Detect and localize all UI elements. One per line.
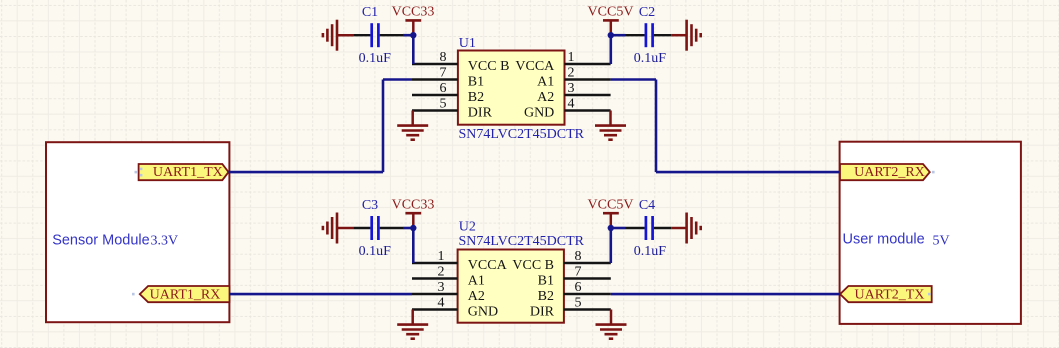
svg-text:C4: C4 xyxy=(639,198,655,213)
pin 3 A2 xyxy=(537,81,610,105)
power port VCC33 (top) xyxy=(392,5,435,36)
pin 1 VCCA xyxy=(515,50,610,74)
svg-text:C1: C1 xyxy=(362,5,378,20)
pin 6 B2 xyxy=(412,81,484,105)
pin 3 A2 xyxy=(412,280,485,304)
svg-text:B2: B2 xyxy=(468,90,484,105)
op-amp U1 (level shifter SN74LVC2T45DCTR) xyxy=(412,36,611,142)
svg-text:8: 8 xyxy=(440,50,447,65)
ground (bottom-left, rotated left) xyxy=(323,213,354,244)
wire VCC33 node down to U2 pin 1 xyxy=(412,228,415,263)
port UART2_RX xyxy=(840,164,930,180)
op-amp U2 (level shifter SN74LVC2T45DCTR) xyxy=(412,220,611,323)
port UART1_TX xyxy=(139,164,229,180)
power port VCC5V (top) xyxy=(588,5,634,36)
svg-text:7: 7 xyxy=(440,66,447,81)
svg-text:B1: B1 xyxy=(468,75,484,90)
wire UART1_TX to riser (net UART1_TX) xyxy=(229,171,384,174)
pin 2 A1 xyxy=(412,265,485,289)
port UART1_RX xyxy=(140,286,230,302)
ground (bottom-right, rotated right) xyxy=(671,213,700,244)
svg-text:3.3V: 3.3V xyxy=(151,233,179,248)
wire VCC5V node down to U2 pin 8 xyxy=(609,228,612,263)
svg-text:VCCA: VCCA xyxy=(515,59,555,74)
svg-text:DIR: DIR xyxy=(530,305,555,320)
wire VCC5V node to C4 xyxy=(611,227,626,230)
wire VCC33 node down to U1 pin 8 xyxy=(412,35,415,64)
wire to U1 pin 7 xyxy=(383,78,412,81)
wire VCC5V node to C2 xyxy=(611,34,626,37)
wire to port UART2_RX xyxy=(656,171,840,174)
ground (under U1 GND pin) xyxy=(595,111,626,140)
svg-text:U1: U1 xyxy=(459,36,476,51)
svg-text:VCCA: VCCA xyxy=(468,258,508,273)
wire U2 pin 6 to port UART2_TX (net UART2_TX) xyxy=(611,293,840,296)
svg-text:VCC B: VCC B xyxy=(468,59,510,74)
svg-text:User module: User module xyxy=(843,232,925,248)
svg-text:5: 5 xyxy=(575,296,582,311)
ground (under U2 GND pin) xyxy=(397,310,428,339)
wire VCC5V node down to U1 pin 1 xyxy=(609,35,612,64)
svg-text:2: 2 xyxy=(438,265,445,280)
capacitor C1 xyxy=(353,5,403,66)
pin 7 B1 xyxy=(412,66,484,90)
svg-text:VCC5V: VCC5V xyxy=(588,197,634,212)
svg-text:U2: U2 xyxy=(459,220,476,235)
svg-text:VCC33: VCC33 xyxy=(392,5,435,20)
svg-text:6: 6 xyxy=(440,81,447,96)
svg-text:3: 3 xyxy=(438,280,445,295)
capacitor C4 xyxy=(626,198,672,259)
junction node VCC5V/C2 xyxy=(608,32,614,38)
svg-text:A2: A2 xyxy=(537,90,554,105)
wire C1 to VCC33 node xyxy=(403,34,413,37)
junction node VCC33/C1 xyxy=(410,32,416,38)
svg-text:A1: A1 xyxy=(537,75,554,90)
pin 2 A1 xyxy=(537,66,610,90)
port UART2_TX xyxy=(840,286,932,302)
svg-text:6: 6 xyxy=(575,280,582,295)
svg-text:0.1uF: 0.1uF xyxy=(634,51,667,66)
svg-text:1: 1 xyxy=(568,50,575,65)
sheet symbol: User module box xyxy=(840,142,1021,324)
svg-text:B2: B2 xyxy=(538,289,554,304)
svg-text:UART2_TX: UART2_TX xyxy=(855,287,925,302)
svg-text:1: 1 xyxy=(438,249,445,264)
svg-text:UART2_RX: UART2_RX xyxy=(854,165,925,180)
svg-text:5V: 5V xyxy=(933,233,950,248)
ground (top-left, rotated left) xyxy=(323,20,354,51)
svg-text:0.1uF: 0.1uF xyxy=(359,244,392,259)
svg-text:A1: A1 xyxy=(468,274,485,289)
svg-text:GND: GND xyxy=(468,305,498,320)
sheet symbol: Sensor Module box xyxy=(46,142,229,322)
svg-text:Sensor Module: Sensor Module xyxy=(52,232,150,248)
junction node VCC5V/C4 xyxy=(608,225,614,231)
svg-text:C2: C2 xyxy=(639,5,655,20)
svg-text:4: 4 xyxy=(568,97,575,112)
svg-text:7: 7 xyxy=(575,265,582,280)
svg-text:VCC5V: VCC5V xyxy=(588,5,634,20)
pin 1 VCCA xyxy=(412,249,508,273)
node marker UART1_RX xyxy=(132,293,135,296)
wire riser down to port row xyxy=(655,80,658,173)
pin 8 VCC B xyxy=(512,249,610,273)
svg-text:VCC33: VCC33 xyxy=(392,197,435,212)
wire C3 to VCC33 node xyxy=(403,227,413,230)
wire riser up to U1 pin 7 row xyxy=(382,80,385,173)
svg-text:SN74LVC2T45DCTR: SN74LVC2T45DCTR xyxy=(459,127,585,142)
ground (top-right, rotated right) xyxy=(671,20,700,51)
svg-text:5: 5 xyxy=(440,97,447,112)
pin 5 DIR xyxy=(412,97,493,121)
pin 7 B1 xyxy=(538,265,611,289)
ground (under U1 DIR pin) xyxy=(397,111,428,140)
power port VCC33 (bottom) xyxy=(392,197,435,228)
node marker UART1_TX xyxy=(135,168,143,177)
pin 4 GND xyxy=(412,296,498,320)
svg-text:UART1_RX: UART1_RX xyxy=(150,287,221,302)
svg-text:3: 3 xyxy=(568,81,575,96)
wire U1 pin 2 to riser (net UART2_RX) xyxy=(611,78,656,81)
pin 4 GND xyxy=(524,97,611,121)
ground (under U2 DIR pin) xyxy=(596,310,627,339)
svg-text:4: 4 xyxy=(438,296,445,311)
svg-text:UART1_TX: UART1_TX xyxy=(153,165,223,180)
svg-text:B1: B1 xyxy=(538,274,554,289)
wire UART1_RX to U2 pin 3 (net UART1_RX) xyxy=(230,293,413,296)
node marker UART2_TX xyxy=(928,293,931,296)
svg-text:2: 2 xyxy=(568,66,575,81)
capacitor C3 xyxy=(353,198,403,259)
svg-text:DIR: DIR xyxy=(468,106,493,121)
pin 8 VCC B xyxy=(412,50,509,74)
junction node VCC33/C3 xyxy=(410,225,416,231)
svg-text:0.1uF: 0.1uF xyxy=(359,51,392,66)
svg-text:0.1uF: 0.1uF xyxy=(634,244,667,259)
svg-text:C3: C3 xyxy=(362,198,378,213)
capacitor C2 xyxy=(626,5,672,66)
pin 6 B2 xyxy=(538,280,611,304)
svg-text:VCC B: VCC B xyxy=(512,258,554,273)
svg-text:8: 8 xyxy=(575,249,582,264)
svg-text:SN74LVC2T45DCTR: SN74LVC2T45DCTR xyxy=(459,234,585,249)
svg-text:GND: GND xyxy=(524,106,554,121)
svg-text:A2: A2 xyxy=(468,289,485,304)
node marker UART2_RX xyxy=(932,171,935,174)
power port VCC5V (bottom) xyxy=(588,197,634,228)
pin 5 DIR xyxy=(530,296,611,320)
